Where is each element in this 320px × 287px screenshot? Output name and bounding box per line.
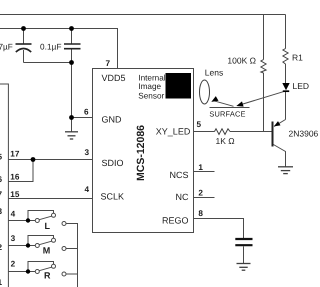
svg-text:4: 4 [11,209,16,218]
svg-text:15: 15 [10,190,20,199]
svg-text:7: 7 [0,190,3,199]
svg-text:2: 2 [11,259,16,268]
svg-text:SCLK: SCLK [101,192,125,202]
svg-text:Image: Image [138,82,161,91]
svg-text:5: 5 [0,153,3,162]
svg-text:1: 1 [0,278,3,287]
svg-text:2N3906: 2N3906 [289,129,319,139]
svg-text:2: 2 [198,188,203,197]
svg-text:Lens: Lens [205,68,223,78]
svg-text:7µF: 7µF [0,42,13,51]
svg-text:L: L [45,221,51,231]
svg-text:XY_LED: XY_LED [156,127,191,137]
svg-text:4: 4 [84,185,89,194]
svg-text:R1: R1 [292,53,303,63]
svg-text:GND: GND [102,115,123,125]
svg-text:NC: NC [176,192,189,202]
svg-text:0.1µF: 0.1µF [40,42,62,51]
svg-text:3: 3 [84,148,89,157]
svg-text:R: R [44,271,51,281]
svg-text:NCS: NCS [169,170,188,180]
svg-text:1K Ω: 1K Ω [216,136,235,146]
svg-text:1: 1 [198,163,203,172]
svg-text:3: 3 [0,207,3,216]
svg-text:SDIO: SDIO [102,158,124,168]
svg-text:8: 8 [198,209,203,218]
svg-text:100K Ω: 100K Ω [227,56,256,66]
svg-text:SURFACE: SURFACE [209,109,245,118]
svg-text:M: M [43,245,51,255]
svg-text:VDD5: VDD5 [102,73,126,83]
svg-text:2: 2 [0,243,3,252]
svg-text:6: 6 [0,175,3,184]
svg-text:3: 3 [11,234,16,243]
svg-text:Internal: Internal [138,73,165,82]
svg-text:7: 7 [105,59,110,68]
svg-text:5: 5 [197,120,202,129]
svg-text:Sensor: Sensor [138,91,164,100]
svg-text:6: 6 [84,107,89,116]
svg-text:MCS-12086: MCS-12086 [135,125,147,181]
svg-text:17: 17 [10,149,20,158]
svg-text:16: 16 [10,173,20,182]
svg-text:LED: LED [293,81,310,91]
svg-text:REGO: REGO [162,216,189,226]
